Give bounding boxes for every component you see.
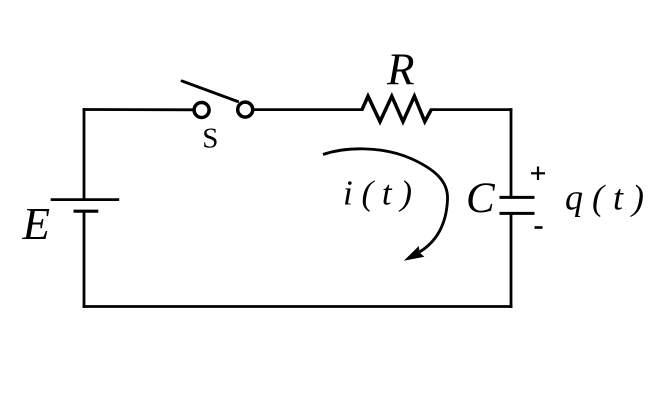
switch S left contact circle: [194, 103, 209, 118]
resistor R zigzag: [362, 96, 431, 121]
polarity minus: [535, 226, 543, 229]
capacitor C bottom plate: [500, 212, 535, 215]
current arrow head: [404, 246, 425, 261]
current arrow i(t) curve: [323, 149, 448, 252]
svg-text:S: S: [202, 123, 218, 155]
capacitor C top plate: [500, 196, 535, 199]
battery E long plate: [51, 198, 120, 201]
svg-text:C: C: [466, 175, 496, 222]
wire bottom horizontal: [84, 305, 511, 308]
switch S right contact circle: [238, 102, 253, 117]
wire switch to resistor: [255, 108, 362, 111]
svg-text:q ( t ): q ( t ): [565, 177, 644, 217]
svg-text:E: E: [22, 199, 51, 249]
polarity plus: [531, 167, 545, 181]
wire resistor to top-right corner: [431, 108, 511, 111]
wire left lower vertical: [83, 212, 86, 306]
wire top-left horizontal: [84, 108, 193, 111]
battery E short plate: [74, 210, 99, 213]
switch S arm: [182, 81, 238, 102]
wire right lower vertical: [510, 215, 513, 307]
svg-text:i ( t ): i ( t ): [343, 173, 412, 212]
wire right upper vertical: [510, 110, 513, 196]
svg-text:R: R: [386, 45, 415, 95]
wire left upper vertical: [83, 110, 86, 199]
